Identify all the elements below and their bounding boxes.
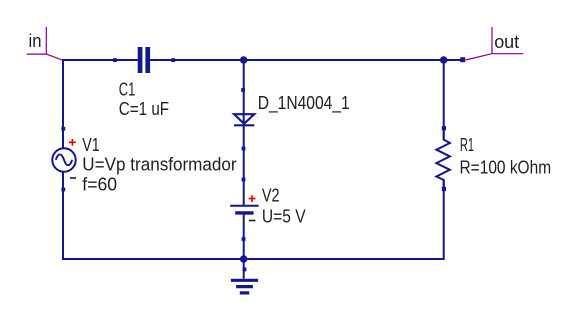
svg-text:R=100 kOhm: R=100 kOhm	[460, 157, 552, 177]
V1 top terminal square	[61, 127, 65, 131]
DC source V2 long plate	[230, 205, 258, 207]
wire: bottom horizontal	[62, 258, 445, 260]
V2 top terminal square	[242, 178, 246, 182]
svg-text:in: in	[29, 31, 42, 51]
junction node at ground / bottom of diode branch	[240, 255, 248, 263]
svg-text:V2: V2	[262, 186, 280, 206]
svg-text:U=Vp transformador: U=Vp transformador	[82, 154, 236, 174]
capacitor C1 left terminal square	[113, 58, 117, 62]
diode D_1N4004_1 triangle and cathode bar	[234, 114, 254, 125]
svg-text:R1: R1	[460, 135, 474, 155]
wire: middle vertical from top wire through diode to V2 top plate	[243, 60, 245, 205]
R1 top terminal square	[442, 126, 446, 130]
wire: top horizontal from capacitor C1 right plate to node out	[150, 59, 462, 61]
ground terminal square	[243, 268, 247, 272]
junction node at top of diode branch	[240, 56, 248, 64]
V2 plus polarity marker	[249, 195, 256, 202]
svg-text:D_1N4004_1: D_1N4004_1	[258, 93, 350, 114]
R1 bottom terminal square	[442, 187, 446, 191]
node label "in" marker lines	[27, 27, 63, 60]
V2 bottom terminal square	[242, 237, 246, 241]
capacitor C1 plates	[138, 47, 150, 73]
wire: right vertical from out node to resistor R1	[443, 60, 445, 140]
svg-text:U=5 V: U=5 V	[262, 206, 306, 226]
ground stub wire	[243, 259, 245, 279]
ground symbol bars	[231, 280, 258, 293]
svg-text:f=60: f=60	[82, 175, 117, 195]
V1 minus polarity marker	[70, 177, 76, 179]
svg-text:C1: C1	[119, 79, 136, 99]
terminal square at out wire end	[460, 57, 465, 62]
DC source V2 short thick plate	[235, 211, 253, 214]
diode top terminal square	[241, 88, 245, 92]
junction node at top of R1 branch	[440, 56, 448, 64]
V2 minus polarity marker	[249, 220, 256, 222]
svg-text:out: out	[494, 32, 519, 52]
capacitor C1 right terminal square	[171, 58, 175, 62]
wire: left vertical through V1	[62, 59, 64, 259]
diode bottom terminal square	[242, 147, 246, 151]
svg-text:C=1 uF: C=1 uF	[119, 99, 169, 119]
V1 plus polarity marker	[69, 139, 76, 146]
node label "out" marker lines	[466, 27, 524, 60]
wire: top horizontal from node in to capacitor C1 left plate	[63, 59, 138, 61]
wire: right vertical from resistor R1 to bottom wire	[443, 180, 445, 259]
AC source V1 sine wave	[56, 154, 72, 165]
AC source V1 circle	[52, 148, 75, 171]
wire: middle vertical from V2 bottom plate to bottom wire	[243, 213, 245, 259]
V1 bottom terminal square	[61, 188, 65, 192]
svg-text:V1: V1	[82, 135, 99, 155]
resistor R1 zigzag	[436, 130, 450, 187]
